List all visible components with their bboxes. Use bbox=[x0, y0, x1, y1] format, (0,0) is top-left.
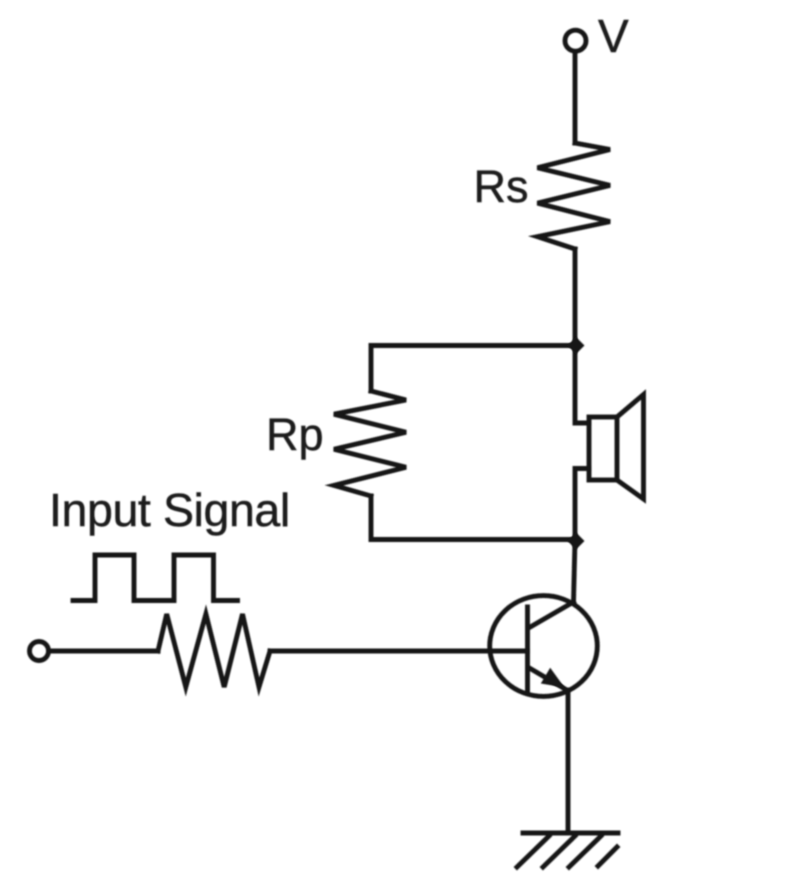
svg-text:Rp: Rp bbox=[266, 409, 324, 460]
svg-text:Input Signal: Input Signal bbox=[49, 484, 290, 536]
svg-text:Rs: Rs bbox=[474, 161, 529, 212]
svg-text:V: V bbox=[598, 10, 629, 62]
